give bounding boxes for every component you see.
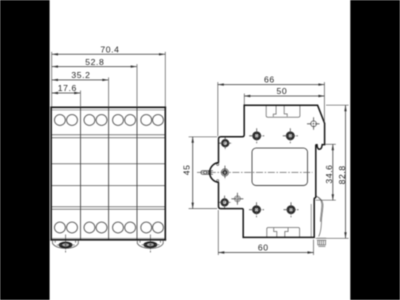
svg-text:70.4: 70.4 [100,45,119,55]
svg-text:34.6: 34.6 [324,164,334,183]
svg-text:66: 66 [264,75,275,85]
svg-text:60: 60 [258,243,269,253]
svg-text:50: 50 [277,86,288,96]
svg-text:35.2: 35.2 [71,70,90,80]
svg-text:52.8: 52.8 [85,57,104,67]
svg-text:45: 45 [182,165,192,176]
svg-text:17.6: 17.6 [58,83,77,93]
svg-text:82.8: 82.8 [337,165,347,184]
